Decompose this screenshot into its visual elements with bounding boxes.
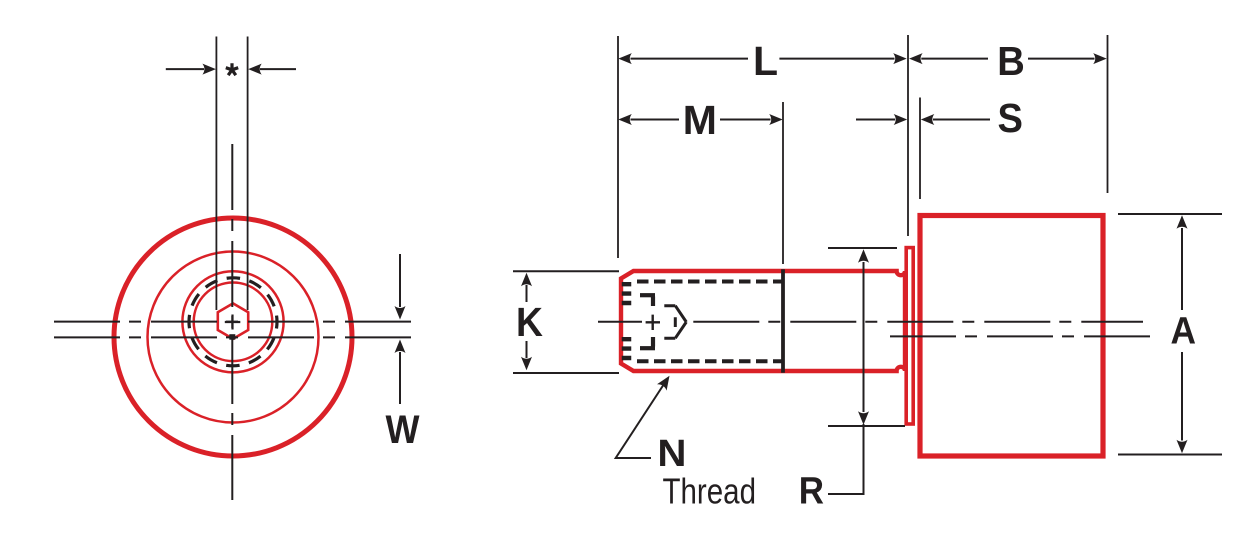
hex width extension line left [215, 37, 217, 311]
svg-text:A: A [1171, 309, 1197, 351]
svg-text:N: N [657, 433, 686, 475]
socket cone point [664, 306, 686, 339]
asterisk dimension left arrow [166, 64, 216, 75]
dimension K [513, 271, 619, 373]
outer circle (roller OD, dim A) [114, 218, 352, 456]
svg-text:S: S [997, 96, 1022, 142]
svg-text:W: W [386, 408, 420, 452]
stud axis centerline (side view) [598, 321, 1143, 323]
dimension S outside arrows [856, 96, 1023, 142]
thread minor hidden line bottom [637, 359, 783, 363]
svg-text:R: R [799, 469, 824, 512]
svg-text:Thread: Thread [663, 471, 756, 511]
W dimension bottom arrow [395, 340, 406, 405]
stud center cross mark [225, 315, 241, 330]
W dimension top arrow [395, 254, 406, 320]
hex socket hexagon [218, 303, 248, 339]
extension line: thread end (M) [782, 102, 784, 264]
dimension M [618, 97, 782, 143]
roller axis horizontal centerline (left view) [54, 336, 411, 338]
hidden dashed circle (socket counterbore) [189, 278, 277, 366]
svg-text:M: M [683, 97, 717, 143]
extension line: screw left end [617, 36, 619, 258]
stud axis horizontal centerline (left view) [54, 321, 411, 323]
inner circle (thread minor dia) [194, 283, 273, 362]
asterisk dimension right arrow [248, 64, 296, 75]
circle 2 (roller hub circle) [148, 252, 319, 423]
circle 3 (stud shoulder OD) [182, 271, 283, 372]
asterisk glyph [226, 63, 238, 75]
thread minor hidden line top [637, 280, 783, 284]
N leader arrow [616, 376, 670, 458]
roller axis centerline (side view) [890, 335, 1150, 337]
extension line: head right face (B) [1107, 35, 1109, 193]
dimension A [1118, 214, 1222, 455]
svg-text:B: B [997, 39, 1025, 85]
hex width extension line right [247, 37, 249, 311]
W label [386, 408, 420, 452]
vertical centerline (left view) [231, 144, 233, 500]
svg-text:K: K [516, 301, 543, 346]
center tick on stud axis [646, 315, 660, 330]
roller center square dot [229, 334, 235, 340]
extension line: head underside (L right) [907, 35, 909, 236]
flange (seal plate) [906, 248, 913, 424]
svg-text:L: L [753, 38, 778, 84]
stud outline with undercut notches [621, 271, 905, 371]
dimension L [618, 38, 906, 84]
N label [657, 433, 686, 475]
thread end solid line [781, 269, 785, 373]
thread chamfer dashed column [622, 282, 632, 361]
hex socket hidden wall lines [640, 295, 655, 348]
extension line: head face (S) [919, 98, 921, 200]
Thread label [663, 471, 756, 511]
roller (head) rectangle [920, 216, 1103, 457]
dimension B [909, 39, 1107, 85]
dimension R [799, 248, 905, 512]
